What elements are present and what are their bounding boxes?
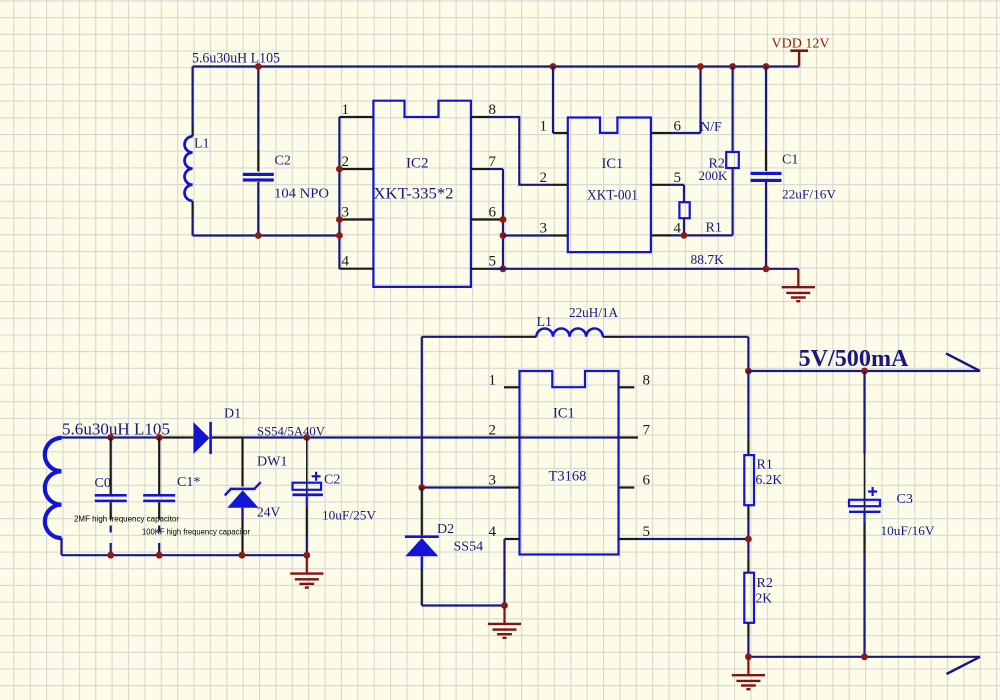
label IC1 (top) (602, 156, 624, 172)
svg-text:4: 4 (489, 524, 497, 540)
pin number IC1-6 (674, 119, 682, 135)
svg-text:1: 1 (342, 102, 350, 118)
label L1 (194, 137, 210, 152)
resistor R2 (200K) body (726, 152, 739, 168)
junction C0 top (107, 434, 114, 441)
wire R1 bottom (683, 218, 685, 235)
junction DW1 bottom (239, 552, 246, 559)
note 2MF high frequency capacitor (74, 515, 179, 524)
label 10uF/16V (881, 523, 936, 538)
wire pin4 down to ground (503, 539, 505, 606)
svg-text:2: 2 (342, 154, 350, 170)
capacitor C1* (143, 438, 175, 556)
svg-text:4: 4 (674, 221, 682, 237)
svg-text:IC1: IC1 (602, 156, 624, 172)
label L1 (buck) (537, 315, 553, 330)
wire coil row right (625, 337, 748, 371)
junction IC2 pin5 bottom wire (500, 265, 507, 272)
zener DW1 24V (225, 482, 261, 555)
svg-text:DW1: DW1 (257, 455, 287, 470)
junction IC2 pin3 rail (336, 216, 343, 223)
pin T3168 pin1 stub (504, 386, 520, 388)
svg-text:IC1: IC1 (553, 406, 575, 422)
resistor R1 (6.2K) body (744, 455, 754, 505)
svg-text:XKT-335*2: XKT-335*2 (374, 186, 454, 203)
label C2 (receiver) (324, 473, 340, 488)
label C3 (897, 492, 913, 507)
junction R2 rail (729, 63, 736, 70)
svg-text:L1: L1 (537, 315, 553, 330)
pin T3168 pin6 stub (619, 486, 635, 488)
wire pin4 row (672, 234, 733, 236)
power symbol VDD bar (790, 51, 808, 67)
wire pin2 row crossing box (505, 436, 619, 438)
pin number T1-7 (643, 423, 651, 439)
label R2 (2K) (757, 576, 773, 591)
wire R2 riser (731, 67, 733, 153)
wire R2 bottom (731, 168, 733, 235)
label D2 (437, 522, 454, 537)
pin number T1-2 (489, 423, 497, 439)
pin IC1 pin5 stub (651, 184, 670, 186)
pin IC2 pin7 stub (471, 168, 490, 170)
capacitor C1 (22uF/16V) (751, 67, 782, 269)
pin number T1-6 (643, 473, 651, 489)
junction C1* bottom (156, 552, 163, 559)
wire D1 to pin2 (244, 436, 505, 438)
junction R1 pin4 (681, 232, 688, 239)
svg-text:SS54/5A40V: SS54/5A40V (257, 424, 326, 439)
junction C1* top (156, 434, 163, 441)
label SS54 (454, 540, 484, 555)
svg-text:22uF/16V: 22uF/16V (782, 187, 837, 202)
label C1* (177, 475, 200, 490)
svg-text:T3168: T3168 (549, 469, 587, 485)
svg-text:C0: C0 (95, 476, 111, 491)
svg-text:100KF high frequency capacitor: 100KF high frequency capacitor (142, 528, 250, 537)
svg-text:24V: 24V (257, 505, 281, 520)
junction C1 rail (763, 63, 770, 70)
pin number IC2-6 (489, 205, 497, 221)
pin IC1 pin3 stub (551, 234, 568, 236)
svg-text:6.2K: 6.2K (756, 472, 783, 487)
wire VDD top rail (193, 65, 800, 67)
svg-text:XKT-001: XKT-001 (587, 188, 638, 204)
connector chevron (output) (946, 353, 980, 371)
label 5.6u30uH L105 (top) (192, 51, 280, 67)
label XKT-001 (587, 188, 638, 204)
junction C3 bottom (861, 653, 868, 660)
pin IC2 pin6 stub (471, 218, 503, 220)
svg-text:88.7K: 88.7K (691, 252, 725, 267)
ground (top circuit) (782, 269, 815, 301)
pin IC2 pin8 stub (471, 116, 490, 118)
junction VDD rail pin1 riser (550, 63, 557, 70)
svg-text:5: 5 (674, 170, 682, 186)
ground (receiver loop) (290, 555, 323, 587)
svg-text:R2: R2 (757, 576, 773, 591)
svg-text:7: 7 (489, 154, 497, 170)
note 100KF high frequency capacitor (142, 528, 250, 537)
pin number IC2-2 (342, 154, 350, 170)
diode D2 SS54 (405, 488, 439, 606)
pin number IC2-1 (342, 102, 350, 118)
wire DW1 riser (241, 438, 243, 487)
label 5V/500mA (799, 346, 910, 372)
ic U-box IC1 XKT-001 (568, 118, 651, 253)
pin T3168 pin7 stub (619, 436, 639, 438)
junction C1 bottom (763, 265, 770, 272)
wire IC1 pin3 (503, 234, 551, 236)
diode D1 SS54/5A40V (186, 422, 244, 454)
svg-text:D2: D2 (437, 522, 454, 537)
svg-text:5.6u30uH L105: 5.6u30uH L105 (192, 51, 280, 67)
svg-text:5: 5 (643, 524, 651, 540)
pin number IC2-8 (489, 102, 497, 118)
label D1 (224, 407, 241, 422)
connector chevron (bottom) (947, 657, 981, 674)
junction loop-bottom rail (336, 232, 343, 239)
wire N/F riser (672, 67, 701, 134)
svg-text:2K: 2K (756, 591, 773, 606)
net label VDD 12V (772, 37, 830, 52)
inductor L1 22uH/1A (503, 329, 625, 337)
ic U-box IC1 T3168 (520, 371, 619, 555)
svg-text:R1: R1 (706, 221, 722, 236)
pin IC2 pin3 stub (339, 218, 373, 220)
wire IC2 left pin rail (338, 117, 340, 269)
pin number IC1-2 (540, 170, 548, 186)
pin number T1-1 (489, 373, 497, 389)
pin IC1 pin2 stub (551, 184, 568, 186)
junction C2 top (receiver) (303, 434, 310, 441)
svg-text:L1: L1 (194, 137, 210, 152)
label 10uF/25V (322, 508, 377, 523)
capacitor C0 (95, 438, 127, 556)
svg-text:3: 3 (540, 221, 548, 237)
pin number IC1-5 (674, 170, 682, 186)
label 24V (257, 505, 281, 520)
junction pin4 ground (501, 602, 508, 609)
label IC2 (406, 156, 429, 172)
wire receiver top (to D1) (62, 436, 186, 438)
pin number IC2-3 (342, 205, 350, 221)
label R1 (6.2K) (757, 458, 773, 473)
wire D2 bottom to ground (422, 604, 505, 606)
label 104 NPO (274, 186, 329, 201)
wire pin3 from D2 (422, 486, 505, 488)
svg-text:5: 5 (489, 254, 497, 270)
label DW1 (257, 455, 287, 470)
svg-text:2: 2 (489, 423, 497, 439)
svg-text:8: 8 (643, 373, 651, 389)
pin number IC2-5 (489, 254, 497, 270)
svg-text:8: 8 (489, 102, 497, 118)
svg-text:3: 3 (489, 473, 497, 489)
pin T3168 pin3 stub (505, 486, 520, 488)
label R1 (706, 221, 722, 236)
label 22uH/1A (569, 305, 618, 320)
junction feedback node (745, 536, 752, 543)
label 22uF/16V (782, 187, 837, 202)
junction N/F rail (697, 63, 704, 70)
wire R1 riser (747, 371, 749, 455)
pin number IC2-4 (342, 254, 350, 270)
wire IC2 pin8 to IC1 pin2 (490, 117, 551, 185)
junction C2 bottom (receiver) (303, 552, 310, 559)
pin IC2 pin4 stub (339, 268, 373, 270)
ground (D2 / pin4) (488, 606, 521, 638)
label 2K (756, 591, 773, 606)
svg-text:1: 1 (489, 373, 497, 389)
svg-text:3: 3 (342, 205, 350, 221)
pin IC2 pin5 stub (471, 268, 503, 270)
svg-text:104 NPO: 104 NPO (274, 186, 329, 201)
svg-text:R1: R1 (757, 458, 773, 473)
svg-text:N/F: N/F (700, 120, 722, 135)
svg-text:10uF/25V: 10uF/25V (322, 508, 377, 523)
pin number T1-5 (643, 524, 651, 540)
wire loop left vertical (192, 67, 194, 236)
junction C2 bottom (255, 232, 262, 239)
svg-text:IC2: IC2 (406, 156, 429, 172)
svg-text:10uF/16V: 10uF/16V (881, 523, 936, 538)
junction IC2 pin6 rail (500, 216, 507, 223)
wire D2 riser (421, 337, 423, 488)
capacitor C3 polarized (10uF/16V) (849, 371, 881, 657)
svg-text:C2: C2 (275, 154, 291, 169)
svg-text:4: 4 (342, 254, 350, 270)
svg-text:SS54: SS54 (454, 540, 484, 555)
svg-text:D1: D1 (224, 407, 241, 422)
resistor R2 (2K) body (744, 573, 754, 623)
wire 5V output (748, 370, 980, 372)
wire bottom rail (top circuit) (490, 268, 798, 270)
label 6.2K (756, 472, 783, 487)
capacitor C2 (104 NPO) (243, 67, 274, 236)
junction C2 top (255, 63, 262, 70)
pin IC2 pin2 stub (339, 168, 373, 170)
ic U-box IC2 XKT-335*2 (373, 101, 471, 287)
label 5.6u30uH L105 (receiver) (62, 420, 170, 439)
pin number T1-8 (643, 373, 651, 389)
junction IC1 pin3 wire (500, 232, 507, 239)
svg-text:C1: C1 (782, 153, 798, 168)
svg-text:C1*: C1* (177, 475, 200, 490)
inductor receiver coil (45, 438, 62, 555)
wire bottom rail (output) (748, 656, 980, 658)
pin number IC2-7 (489, 154, 497, 170)
wire IC1 pin1 riser (552, 67, 554, 134)
svg-text:6: 6 (643, 473, 651, 489)
wire R1 to R2 (747, 505, 749, 573)
svg-text:2: 2 (540, 170, 548, 186)
svg-text:C3: C3 (897, 492, 913, 507)
label N/F (700, 120, 722, 135)
pin number IC1-3 (540, 221, 548, 237)
svg-text:1: 1 (540, 119, 548, 135)
wire IC2 right rail (490, 169, 503, 269)
wire R2 bottom (747, 623, 749, 657)
junction IC2 pin2 rail (336, 166, 343, 173)
label SS54/5A40V (257, 424, 326, 439)
svg-text:200K: 200K (699, 168, 729, 183)
label C0 (95, 476, 111, 491)
pin T3168 pin8 stub (619, 386, 635, 388)
svg-text:C2: C2 (324, 473, 340, 488)
svg-text:22uH/1A: 22uH/1A (569, 305, 618, 320)
junction D2 pin3 (418, 484, 425, 491)
pin T3168 pin4 stub (505, 538, 520, 540)
inductor L1 (transmitter coil) (185, 136, 193, 200)
svg-text:6: 6 (489, 205, 497, 221)
pin IC1 pin4 stub (651, 234, 672, 236)
svg-text:5V/500mA: 5V/500mA (799, 346, 910, 372)
capacitor C2 polarized (10uF/25V) (293, 438, 323, 556)
junction C0 bottom (107, 552, 114, 559)
svg-text:7: 7 (643, 423, 651, 439)
svg-text:5.6u30uH L105: 5.6u30uH L105 (62, 420, 170, 439)
pin number T1-3 (489, 473, 497, 489)
pin number IC1-1 (540, 119, 548, 135)
pin T3168 pin5 stub (619, 538, 639, 540)
wire loop bottom (193, 234, 340, 236)
label R2 (709, 157, 725, 172)
pin number IC1-4 (674, 221, 682, 237)
resistor R1 (88.7K) body (679, 202, 689, 218)
junction R2 ground (745, 653, 752, 660)
pin IC2 pin1 stub (339, 116, 373, 118)
junction C3 top (861, 368, 868, 375)
label 200K (699, 168, 729, 183)
wire pin5 to R divider (638, 538, 749, 540)
wire pin5 to R1 (670, 185, 684, 202)
junction output node (745, 368, 752, 375)
label IC1 (T3168) (553, 406, 575, 422)
wire receiver bottom (62, 554, 307, 556)
label XKT-335*2 (374, 186, 454, 203)
pin IC1 pin1 stub (553, 132, 568, 134)
label C2 (275, 154, 291, 169)
pin IC1 pin6 stub (651, 132, 672, 134)
label T3168 (549, 469, 587, 485)
ground (output) (732, 657, 765, 689)
svg-text:VDD 12V: VDD 12V (772, 37, 830, 52)
wire coil row left (422, 336, 503, 338)
svg-text:2MF high frequency capacitor: 2MF high frequency capacitor (74, 515, 179, 524)
label C1 (782, 153, 798, 168)
pin number T1-4 (489, 524, 497, 540)
label 88.7K (691, 252, 725, 267)
